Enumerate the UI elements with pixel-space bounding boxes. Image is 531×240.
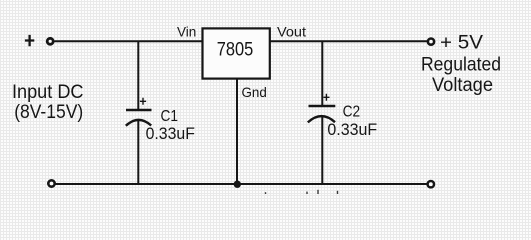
- wire: C2 to ground rail: [321, 117, 323, 185]
- output terminal node: [428, 39, 434, 45]
- svg-text:Regulated: Regulated: [421, 54, 501, 75]
- svg-text:(8V-15V): (8V-15V): [14, 102, 83, 123]
- svg-text:7805: 7805: [217, 40, 254, 61]
- svg-text:0.33uF: 0.33uF: [327, 120, 377, 139]
- wire: top rail branch down to C1: [137, 41, 139, 109]
- capacitor C1: [126, 98, 152, 126]
- + polarity marker (input): [25, 35, 34, 46]
- wire: U1 Vout to output terminal: [270, 40, 427, 42]
- wire: input terminal to U1 Vin: [55, 40, 203, 42]
- junction: U1 Gnd at ground rail: [234, 181, 241, 188]
- wire: C1 to ground rail: [137, 121, 139, 185]
- svg-text:C2: C2: [343, 104, 361, 121]
- svg-text:+ 5V: + 5V: [440, 33, 483, 54]
- svg-text:Vout: Vout: [277, 24, 306, 40]
- svg-text:0.33uF: 0.33uF: [146, 124, 195, 143]
- regulator U1 7805: [203, 28, 270, 78]
- svg-text:Voltage: Voltage: [432, 75, 493, 96]
- ground terminal node right: [428, 181, 434, 187]
- cut-off caption at bottom edge: [266, 190, 338, 194]
- svg-text:C1: C1: [161, 108, 179, 125]
- ground rail wire: [55, 183, 427, 185]
- svg-text:Vin: Vin: [177, 24, 196, 40]
- ground terminal node left: [48, 180, 54, 186]
- wire: top rail branch down to C2: [321, 41, 323, 105]
- input terminal node: [47, 38, 53, 44]
- svg-text:Input DC: Input DC: [12, 82, 84, 103]
- wire: U1 Gnd pin to ground rail: [236, 78, 238, 184]
- capacitor C2: [308, 94, 336, 123]
- svg-text:Gnd: Gnd: [242, 84, 267, 100]
